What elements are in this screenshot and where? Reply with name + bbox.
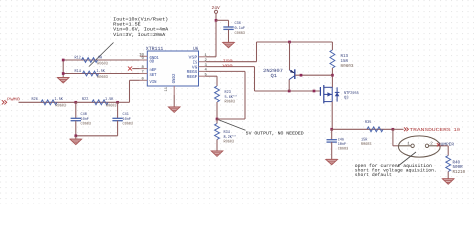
svg-text:Vin=0.6V, Iout=4mA: Vin=0.6V, Iout=4mA [113, 27, 168, 33]
svg-text:VIN: VIN [150, 80, 157, 85]
svg-text:R0603: R0603 [106, 103, 117, 108]
svg-text:short default: short default [355, 172, 392, 178]
svg-text:VG0: VG0 [223, 64, 234, 69]
svg-text:Rset=1.5E: Rset=1.5E [113, 22, 141, 28]
svg-text:1.5K: 1.5K [55, 97, 64, 102]
svg-text:R14: R14 [75, 69, 82, 74]
svg-text:0R: 0R [98, 55, 103, 60]
svg-text:10nF: 10nF [123, 117, 132, 122]
svg-text:REGF: REGF [187, 75, 198, 80]
svg-text:Q1: Q1 [271, 73, 278, 79]
svg-text:R26: R26 [32, 97, 39, 102]
svg-text:R0603: R0603 [56, 103, 67, 108]
svg-text:R0603: R0603 [97, 75, 108, 80]
svg-text:10nF: 10nF [81, 117, 90, 122]
svg-text:R23: R23 [225, 90, 232, 95]
svg-text:C0603: C0603 [235, 31, 246, 36]
svg-text:C0603: C0603 [123, 122, 134, 127]
svg-text:15R: 15R [361, 138, 368, 143]
svg-text:C46: C46 [338, 137, 345, 142]
svg-text:PWM0: PWM0 [7, 98, 20, 103]
svg-text:R0603: R0603 [361, 142, 372, 147]
svg-text:Iout=10x(Vin/Rset): Iout=10x(Vin/Rset) [113, 17, 168, 23]
svg-text:R0603: R0603 [341, 64, 354, 69]
svg-text:10: 10 [454, 127, 461, 133]
svg-text:R12: R12 [75, 55, 82, 60]
svg-text:11: 11 [164, 86, 169, 91]
svg-text:IS0: IS0 [223, 59, 234, 64]
svg-text:7: 7 [142, 70, 144, 75]
svg-text:SET: SET [150, 73, 157, 78]
svg-text:NTF2955: NTF2955 [344, 91, 359, 96]
svg-text:JUMPER: JUMPER [438, 143, 454, 148]
svg-text:C0603: C0603 [338, 147, 349, 152]
svg-text:C41: C41 [123, 112, 130, 117]
svg-text:10nF: 10nF [338, 142, 347, 147]
svg-text:R0603: R0603 [225, 100, 236, 105]
svg-text:R22: R22 [82, 97, 89, 102]
svg-text:Q3: Q3 [344, 96, 349, 101]
svg-text:C36: C36 [235, 21, 242, 26]
svg-text:R0603: R0603 [97, 61, 108, 66]
svg-text:XTR111: XTR111 [146, 46, 164, 52]
svg-text:TRANSDUCERS: TRANSDUCERS [409, 127, 451, 133]
svg-text:0.1uF: 0.1uF [235, 26, 246, 31]
svg-text:GND2: GND2 [172, 73, 177, 83]
svg-text:Vin=3V, Iout=20mA: Vin=3V, Iout=20mA [113, 32, 165, 38]
svg-text:C40: C40 [81, 112, 88, 117]
svg-text:R0603: R0603 [224, 140, 235, 145]
svg-text:OD: OD [150, 60, 155, 65]
svg-text:C0603: C0603 [81, 122, 92, 127]
svg-text:R1210: R1210 [453, 169, 466, 175]
svg-text:1.5K: 1.5K [105, 97, 114, 102]
svg-text:U6: U6 [193, 46, 198, 52]
svg-text:R35: R35 [365, 120, 372, 125]
svg-text:5V OUTPUT, NO NEEDED: 5V OUTPUT, NO NEEDED [246, 131, 304, 137]
svg-text:R34: R34 [224, 130, 231, 135]
svg-text:1.5K: 1.5K [97, 69, 106, 74]
